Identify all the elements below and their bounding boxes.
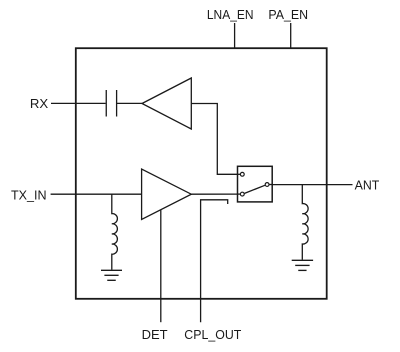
svg-text:TX_IN: TX_IN [11, 188, 47, 203]
svg-text:DET: DET [142, 327, 168, 342]
svg-text:PA_EN: PA_EN [268, 7, 308, 22]
svg-text:RX: RX [30, 96, 49, 111]
svg-text:LNA_EN: LNA_EN [207, 7, 254, 22]
svg-text:ANT: ANT [355, 177, 380, 192]
svg-text:CPL_OUT: CPL_OUT [184, 327, 241, 342]
